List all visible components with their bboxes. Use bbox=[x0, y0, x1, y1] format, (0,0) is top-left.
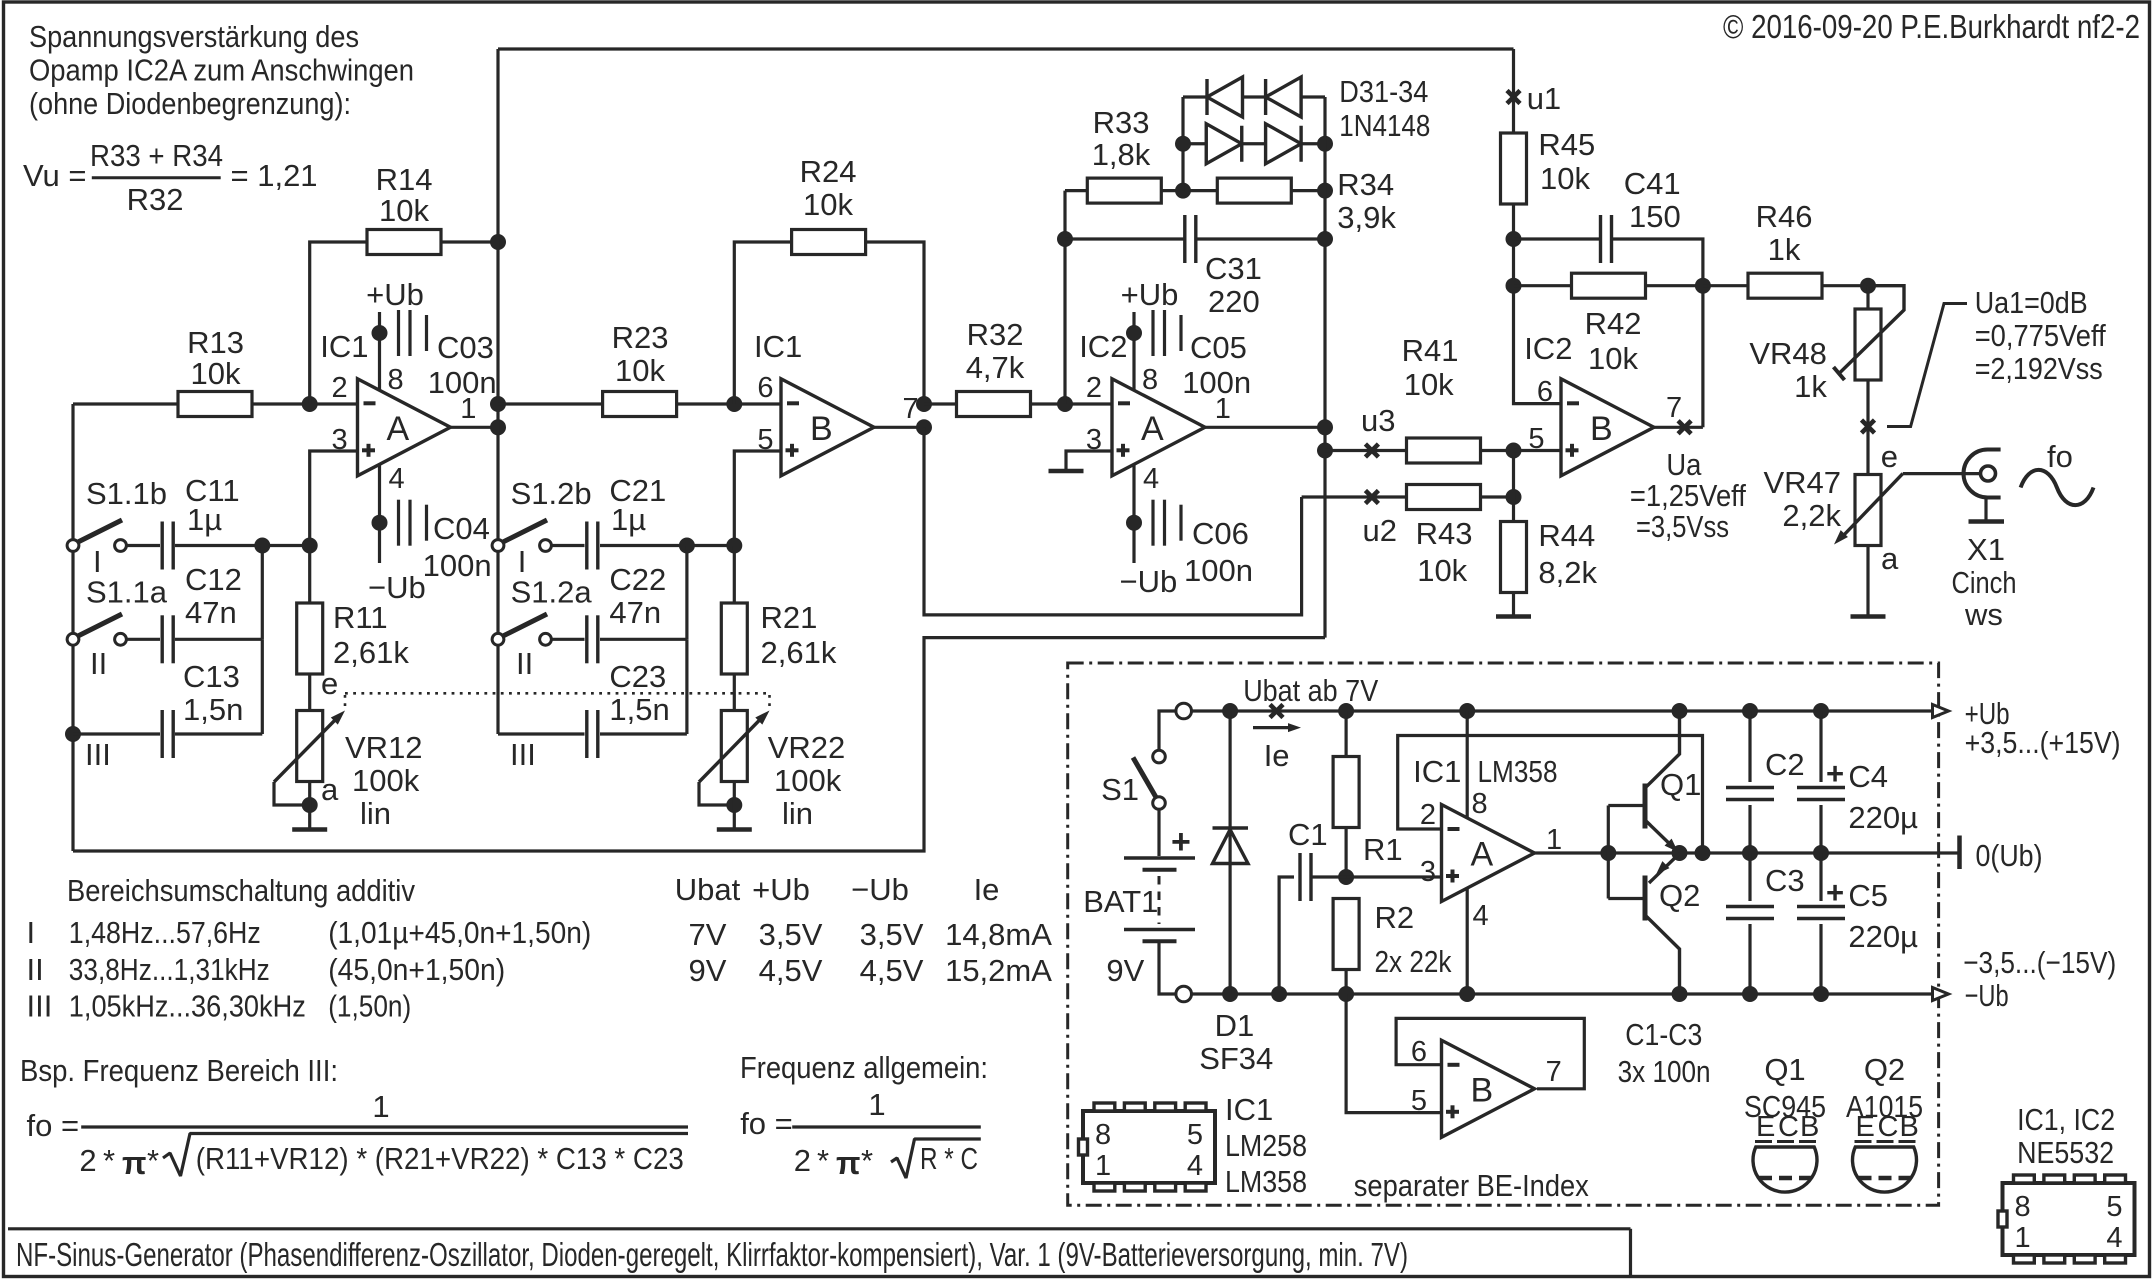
wire Q1 base stub bbox=[1608, 804, 1645, 807]
svg-text:S1.1b: S1.1b bbox=[86, 476, 167, 511]
svg-text:a: a bbox=[1881, 541, 1899, 576]
node diode row2 right bbox=[1317, 136, 1333, 152]
trimmer VR48 bbox=[1855, 309, 1881, 380]
svg-text:IC2: IC2 bbox=[1079, 329, 1127, 364]
IC package NE5532 DIP-8 bbox=[2003, 1183, 2135, 1255]
wire C13 to C12 row bbox=[261, 639, 264, 734]
svg-text:S1.1a: S1.1a bbox=[86, 575, 168, 610]
wire u3 row bbox=[1325, 449, 1407, 452]
svg-text:D31-34: D31-34 bbox=[1339, 74, 1428, 109]
potentiometer VR47 bbox=[1855, 475, 1881, 546]
svg-text:E: E bbox=[1856, 1111, 1875, 1143]
svg-text:Spannungsverstärkung des: Spannungsverstärkung des bbox=[29, 19, 359, 54]
svg-text:B: B bbox=[1471, 1071, 1494, 1109]
op-amp IC2 B bbox=[1561, 379, 1654, 476]
wire C13 left bbox=[73, 732, 160, 735]
ground VR47 bbox=[1851, 614, 1886, 619]
svg-text:= 1,21: = 1,21 bbox=[231, 158, 318, 193]
wire C23 to C22 row bbox=[685, 639, 688, 734]
svg-text:VR12: VR12 bbox=[345, 730, 423, 765]
wire VR47 wiper to X1 bbox=[1903, 472, 1979, 475]
wire battery to minus rail bbox=[1159, 943, 1177, 994]
transistor Q1 pinout ECB bbox=[1753, 1147, 1817, 1192]
wire stage3 feedback column bbox=[1063, 191, 1066, 404]
arrow Ie bbox=[1253, 726, 1292, 729]
svg-text:II: II bbox=[516, 646, 533, 681]
svg-text:33,8Hz...1,31kHz: 33,8Hz...1,31kHz bbox=[69, 952, 270, 987]
wire IC1A output bbox=[451, 426, 499, 429]
svg-text:C31: C31 bbox=[1205, 251, 1262, 286]
svg-text:B: B bbox=[810, 410, 833, 448]
svg-text:1: 1 bbox=[1546, 824, 1562, 856]
svg-text:10k: 10k bbox=[1417, 553, 1467, 588]
switch S1.2b bbox=[501, 520, 547, 543]
capacitor C11 bbox=[160, 522, 163, 570]
wire C12 to C11 row bbox=[261, 546, 264, 640]
svg-text:C1: C1 bbox=[1288, 817, 1328, 852]
svg-text:II: II bbox=[27, 952, 44, 987]
node R43 R44 bbox=[1506, 489, 1522, 505]
svg-text:−3,5...(−15V): −3,5...(−15V) bbox=[1963, 945, 2116, 980]
svg-text:1µ: 1µ bbox=[611, 502, 646, 537]
node base column output bbox=[1600, 845, 1616, 861]
svg-text:2: 2 bbox=[332, 372, 348, 404]
wire IC2A pin4 supply bbox=[1132, 464, 1135, 563]
wire C23 left bbox=[498, 732, 585, 735]
wire R11 top leg bbox=[308, 546, 311, 604]
op-amp power IC1 A bbox=[1442, 805, 1535, 902]
svg-text:+: + bbox=[1826, 875, 1844, 910]
svg-text:fo =: fo = bbox=[740, 1106, 793, 1141]
node R42 row left bbox=[1506, 278, 1522, 294]
wire R44 column bbox=[1512, 451, 1515, 522]
svg-text:10k: 10k bbox=[191, 356, 241, 391]
svg-text:SF34: SF34 bbox=[1199, 1041, 1273, 1076]
potentiometer VR22 bbox=[721, 711, 747, 782]
sine symbol fo bbox=[2021, 470, 2094, 505]
svg-text:III: III bbox=[27, 989, 53, 1024]
svg-text:5: 5 bbox=[2106, 1191, 2122, 1223]
svg-text:14,8mA: 14,8mA bbox=[945, 917, 1052, 952]
wire IC2B pin5 bbox=[1514, 449, 1562, 452]
svg-text:R42: R42 bbox=[1585, 306, 1642, 341]
svg-text:R2: R2 bbox=[1375, 900, 1415, 935]
node stage2 rail R23 bbox=[490, 396, 506, 412]
wire stage1 input rail bbox=[71, 404, 74, 851]
wire IC2A output column bbox=[1323, 97, 1326, 638]
svg-text:+Ub: +Ub bbox=[752, 872, 810, 907]
capacitor C21 bbox=[585, 522, 588, 570]
node feedback output bbox=[1695, 845, 1711, 861]
wire R24 right leg bbox=[866, 242, 924, 404]
switch S1.1a bbox=[76, 614, 122, 637]
svg-text:A: A bbox=[1141, 410, 1164, 448]
svg-text:π: π bbox=[122, 1145, 147, 1181]
wire main loop top bbox=[498, 47, 1514, 50]
wire u2 row bbox=[1302, 495, 1407, 498]
wire R2 bottom bbox=[1344, 970, 1347, 995]
wire R32 to IC2A pin2 bbox=[1031, 402, 1113, 405]
node power A pin8 rail bbox=[1459, 703, 1475, 719]
resistor R14 bbox=[367, 230, 441, 255]
resistor R24 bbox=[792, 230, 866, 255]
svg-text:X1: X1 bbox=[1967, 532, 2005, 567]
svg-text:15,2mA: 15,2mA bbox=[945, 953, 1052, 988]
resistor R32 bbox=[957, 392, 1031, 417]
capacitor C41 bbox=[1599, 215, 1602, 263]
wire oscillator feedback bottom bbox=[73, 638, 1325, 851]
wire C13 right bbox=[175, 732, 262, 735]
svg-text:6: 6 bbox=[757, 372, 773, 404]
wire R1 top bbox=[1344, 711, 1347, 757]
node R23 R24 pin6 bbox=[726, 396, 742, 412]
wire VR48 to VR47 bbox=[1866, 380, 1869, 475]
svg-text:1k: 1k bbox=[1794, 369, 1827, 404]
wire Q2 base stub bbox=[1608, 897, 1645, 900]
wire diode left column bbox=[1181, 97, 1184, 191]
svg-text:100n: 100n bbox=[1182, 365, 1251, 400]
node C31 feedback bbox=[1057, 231, 1073, 247]
wire R34 right leg bbox=[1291, 189, 1325, 192]
node R46 VR48 bbox=[1860, 278, 1876, 294]
node diode right column R34 bbox=[1317, 183, 1333, 199]
x mark Ua bbox=[1678, 421, 1691, 434]
svg-text:separater BE-Index: separater BE-Index bbox=[1354, 1168, 1589, 1203]
svg-text:C12: C12 bbox=[185, 562, 242, 597]
capacitor C23 bbox=[585, 710, 588, 758]
svg-text:=1,25Veff: =1,25Veff bbox=[1630, 478, 1746, 513]
resistor R13 bbox=[178, 392, 252, 417]
resistor R34 bbox=[1217, 178, 1291, 203]
resistor R11 bbox=[297, 603, 323, 674]
wire 0Ub output row bbox=[1535, 851, 1960, 854]
capacitor C4 elko bbox=[1797, 786, 1845, 790]
svg-text:C: C bbox=[1778, 1111, 1799, 1143]
svg-text:E: E bbox=[1756, 1111, 1775, 1143]
svg-text:ws: ws bbox=[1964, 597, 2003, 632]
svg-text:fo =: fo = bbox=[27, 1108, 80, 1143]
diode D34 bbox=[1266, 124, 1302, 164]
node C13 rail bbox=[65, 726, 81, 742]
wire VR48 top bbox=[1866, 286, 1869, 309]
wire IC1A pin8 supply bbox=[378, 312, 381, 391]
svg-text:4: 4 bbox=[389, 463, 405, 495]
capacitor C1 bbox=[1298, 853, 1301, 901]
node VR12 bottom bbox=[302, 797, 318, 813]
svg-text:C05: C05 bbox=[1190, 330, 1247, 365]
terminal 0Ub bbox=[1957, 836, 1962, 870]
resistor R41 bbox=[1407, 438, 1481, 463]
node IC2A output u3 bbox=[1317, 443, 1333, 459]
svg-text:Bsp. Frequenz Bereich III:: Bsp. Frequenz Bereich III: bbox=[20, 1053, 338, 1088]
svg-text:C: C bbox=[1878, 1111, 1899, 1143]
svg-text:R23: R23 bbox=[612, 320, 669, 355]
svg-text:*: * bbox=[817, 1143, 829, 1178]
wire VR12 to ground bbox=[308, 782, 311, 830]
svg-text:R33: R33 bbox=[1093, 105, 1150, 140]
svg-text:C03: C03 bbox=[437, 330, 494, 365]
wire C1 left bbox=[1279, 877, 1294, 994]
svg-text:C5: C5 bbox=[1848, 878, 1888, 913]
wire R21 to VR22 bbox=[733, 674, 736, 711]
wire S1 to battery bbox=[1157, 810, 1160, 857]
wire R43 right bbox=[1481, 495, 1514, 498]
svg-text:Q2: Q2 bbox=[1864, 1052, 1905, 1087]
svg-text:C4: C4 bbox=[1848, 759, 1888, 794]
Bsp fraction bar bbox=[81, 1125, 688, 1128]
op-amp IC2 A bbox=[1112, 379, 1205, 476]
svg-text:C04: C04 bbox=[433, 511, 490, 546]
x mark u3 bbox=[1365, 444, 1378, 457]
wire R42 left bbox=[1514, 284, 1572, 287]
svg-text:220µ: 220µ bbox=[1848, 919, 1918, 954]
svg-text:(45,0n+1,50n): (45,0n+1,50n) bbox=[328, 952, 505, 987]
svg-text:R44: R44 bbox=[1538, 518, 1595, 553]
svg-text:1,5n: 1,5n bbox=[609, 692, 669, 727]
node IC2A output bbox=[1317, 419, 1333, 435]
svg-text:R32: R32 bbox=[127, 182, 184, 217]
svg-text:2,2k: 2,2k bbox=[1782, 498, 1841, 533]
svg-text:8: 8 bbox=[2015, 1191, 2031, 1223]
diode D32 bbox=[1205, 79, 1208, 115]
svg-text:Q2: Q2 bbox=[1659, 878, 1700, 913]
svg-text:2: 2 bbox=[1420, 799, 1436, 831]
svg-text:B: B bbox=[1800, 1111, 1819, 1143]
svg-text:lin: lin bbox=[782, 796, 813, 831]
wire power A feedback bbox=[1398, 736, 1703, 854]
Bsp radical sign bbox=[163, 1134, 688, 1177]
svg-text:C22: C22 bbox=[609, 562, 666, 597]
svg-text:3,9k: 3,9k bbox=[1337, 200, 1396, 235]
diode D33 bbox=[1206, 124, 1242, 164]
wire C2 bottom bbox=[1748, 805, 1751, 853]
svg-text:R46: R46 bbox=[1756, 199, 1813, 234]
Vu formula fraction bar bbox=[92, 176, 221, 179]
wire C12 right bbox=[175, 638, 262, 641]
wire S1 top bbox=[1159, 711, 1177, 751]
wire IC1A pin4 supply bbox=[378, 464, 381, 563]
svg-text:Ubat: Ubat bbox=[675, 872, 741, 907]
wire diode row2 segments bbox=[1183, 142, 1206, 145]
resistor R45 bbox=[1501, 133, 1527, 204]
svg-text:1: 1 bbox=[372, 1089, 389, 1124]
wire R33 to R34 bbox=[1161, 189, 1217, 192]
svg-text:10k: 10k bbox=[1588, 341, 1638, 376]
resistor R2 bbox=[1333, 899, 1359, 970]
wire R33 left leg bbox=[1065, 189, 1087, 192]
svg-text:*: * bbox=[103, 1143, 115, 1178]
svg-text:R24: R24 bbox=[800, 154, 857, 189]
wire transistor base column bbox=[1607, 806, 1610, 899]
node R42 R46 output bbox=[1695, 278, 1711, 294]
svg-text:100n: 100n bbox=[423, 548, 492, 583]
wire C22 to C21 row bbox=[685, 546, 688, 640]
svg-text:S1.2a: S1.2a bbox=[511, 575, 593, 610]
node IC1A output bbox=[490, 419, 506, 435]
switch S1.2a bbox=[501, 614, 547, 637]
wire C3 top bbox=[1748, 853, 1751, 901]
svg-text:(ohne Diodenbegrenzung):: (ohne Diodenbegrenzung): bbox=[29, 86, 351, 121]
svg-text:A: A bbox=[1471, 836, 1494, 874]
resistor R42 bbox=[1572, 273, 1646, 298]
svg-text:C06: C06 bbox=[1192, 516, 1249, 551]
svg-text:IC1: IC1 bbox=[320, 329, 368, 364]
svg-text:I: I bbox=[27, 915, 36, 950]
svg-text:C3: C3 bbox=[1765, 863, 1805, 898]
allgemein fraction bar bbox=[792, 1125, 981, 1128]
node C2 C3 mid bbox=[1742, 845, 1758, 861]
svg-text:−Ub: −Ub bbox=[368, 570, 426, 605]
svg-text:*: * bbox=[861, 1143, 873, 1178]
svg-text:IC2: IC2 bbox=[1524, 331, 1572, 366]
op-amp IC1 A bbox=[358, 379, 451, 476]
wire C11 right bbox=[175, 544, 310, 547]
node C11 pin3 bbox=[302, 538, 318, 554]
capacitor C05 bypass bbox=[1126, 325, 1142, 341]
arrow +Ub out bbox=[1933, 705, 1949, 718]
node C5 bottom bbox=[1813, 986, 1829, 1002]
capacitor C12 bbox=[160, 615, 163, 663]
resistor R44 bbox=[1501, 522, 1527, 593]
svg-text:R33 + R34: R33 + R34 bbox=[90, 138, 223, 173]
svg-text:VR22: VR22 bbox=[768, 730, 846, 765]
svg-text:Ubat ab 7V: Ubat ab 7V bbox=[1243, 673, 1378, 708]
wire R46 right bbox=[1822, 284, 1868, 287]
svg-text:VR47: VR47 bbox=[1763, 465, 1841, 500]
svg-text:Bereichsumschaltung additiv: Bereichsumschaltung additiv bbox=[67, 873, 415, 908]
ground VR22 bbox=[717, 827, 752, 832]
wire Ubat rail bbox=[1190, 709, 1933, 712]
svg-text:Q1: Q1 bbox=[1764, 1052, 1805, 1087]
connector X1 chassis bbox=[1984, 497, 1987, 520]
wire C23 right bbox=[600, 732, 687, 735]
node C2 top bbox=[1742, 703, 1758, 719]
svg-text:2,61k: 2,61k bbox=[761, 635, 837, 670]
wire R23 to IC1B pin6 bbox=[677, 402, 781, 405]
svg-text:e: e bbox=[321, 666, 338, 701]
svg-text:4: 4 bbox=[2106, 1222, 2122, 1254]
node R24 IC1B output bbox=[916, 396, 932, 412]
battery terminal top bbox=[1176, 703, 1192, 719]
node R32 feedback bbox=[1057, 396, 1073, 412]
wire VR47 to ground bbox=[1866, 546, 1869, 616]
svg-text:=2,192Vss: =2,192Vss bbox=[1975, 351, 2103, 386]
ground R44 bbox=[1496, 614, 1531, 619]
svg-text:u1: u1 bbox=[1527, 81, 1561, 116]
wire R44 to ground bbox=[1512, 593, 1515, 617]
wire stage2 rail bbox=[496, 49, 499, 734]
arrow -Ub out bbox=[1933, 988, 1949, 1001]
transistor Q1 bbox=[1643, 784, 1648, 829]
svg-text:4,7k: 4,7k bbox=[966, 350, 1025, 385]
node R13 R14 pin2 bbox=[302, 396, 318, 412]
node IC1B output bbox=[916, 419, 932, 435]
svg-text:R13: R13 bbox=[187, 325, 244, 360]
wire C12 left bbox=[127, 638, 160, 641]
node C4 top bbox=[1813, 703, 1829, 719]
wire R42 right bbox=[1646, 284, 1703, 287]
title bar box bbox=[8, 1227, 1631, 1230]
wire C21 left bbox=[552, 544, 585, 547]
wire R41 right bbox=[1481, 449, 1514, 452]
node C3 bottom bbox=[1742, 986, 1758, 1002]
resistor R43 bbox=[1407, 485, 1481, 510]
svg-text:R43: R43 bbox=[1416, 516, 1473, 551]
svg-text:7V: 7V bbox=[689, 917, 727, 952]
svg-text:III: III bbox=[85, 737, 111, 772]
svg-text:10k: 10k bbox=[1404, 367, 1454, 402]
node R2 bottom rail bbox=[1338, 986, 1354, 1002]
svg-text:0(Ub): 0(Ub) bbox=[1976, 838, 2043, 873]
svg-text:6: 6 bbox=[1537, 376, 1553, 408]
svg-text:=3,5Vss: =3,5Vss bbox=[1636, 509, 1729, 544]
svg-text:3: 3 bbox=[1420, 856, 1436, 888]
wire IC2A pin8 supply bbox=[1132, 312, 1135, 391]
wire R24 left leg bbox=[734, 242, 791, 404]
svg-text:Opamp IC2A zum Anschwingen: Opamp IC2A zum Anschwingen bbox=[29, 53, 414, 88]
svg-text:−Ub: −Ub bbox=[851, 872, 909, 907]
svg-text:C23: C23 bbox=[609, 659, 666, 694]
wire C5 bottom bbox=[1819, 924, 1822, 994]
svg-text:LM258: LM258 bbox=[1225, 1128, 1307, 1163]
svg-text:IC1, IC2: IC1, IC2 bbox=[2017, 1102, 2115, 1137]
capacitor C2 bbox=[1726, 786, 1774, 790]
diode D1 bbox=[1228, 711, 1231, 994]
wire R32 row bbox=[924, 402, 957, 405]
svg-text:Ie: Ie bbox=[1264, 738, 1290, 773]
svg-text:R45: R45 bbox=[1538, 127, 1595, 162]
wire diode row1 segments bbox=[1183, 95, 1207, 98]
capacitor C04 bypass bbox=[372, 515, 388, 531]
svg-text:R32: R32 bbox=[967, 317, 1024, 352]
node diode left column R33 bbox=[1175, 183, 1191, 199]
svg-text:IC1: IC1 bbox=[1225, 1092, 1273, 1127]
wire C2 top bbox=[1748, 711, 1751, 782]
node R1 R2 C1 bbox=[1338, 869, 1354, 885]
wire IC1B out to u2 feed bbox=[924, 427, 1302, 615]
svg-text:8,2k: 8,2k bbox=[1538, 555, 1597, 590]
wire R21 top leg bbox=[733, 546, 736, 604]
connector X1 cinch bbox=[1964, 450, 2001, 498]
capacitor C06 bypass bbox=[1126, 515, 1142, 531]
svg-text:1k: 1k bbox=[1768, 232, 1801, 267]
svg-text:R1: R1 bbox=[1363, 832, 1403, 867]
wire C3 bottom bbox=[1748, 924, 1751, 994]
potentiometer VR12 bbox=[297, 711, 323, 782]
svg-text:II: II bbox=[90, 646, 107, 681]
svg-text:S1.2b: S1.2b bbox=[511, 476, 592, 511]
svg-text:Frequenz allgemein:: Frequenz allgemein: bbox=[740, 1050, 988, 1085]
svg-text:B: B bbox=[1900, 1111, 1919, 1143]
svg-text:Ua1=0dB: Ua1=0dB bbox=[1975, 285, 2088, 320]
svg-text:Cinch: Cinch bbox=[1952, 565, 2017, 600]
svg-text:e: e bbox=[1881, 439, 1898, 474]
allgemein radical sign bbox=[891, 1139, 981, 1178]
resistor R1 bbox=[1333, 757, 1359, 828]
svg-text:4: 4 bbox=[1187, 1150, 1203, 1182]
svg-text:100n: 100n bbox=[428, 365, 497, 400]
svg-text:10k: 10k bbox=[803, 187, 853, 222]
svg-text:2: 2 bbox=[79, 1143, 96, 1178]
svg-text:1,5n: 1,5n bbox=[183, 692, 243, 727]
x mark u1 bbox=[1507, 91, 1520, 104]
wire C1 right bbox=[1311, 875, 1346, 878]
resistor R33 bbox=[1087, 178, 1161, 203]
wire u1 column to R45 bbox=[1512, 49, 1515, 133]
battery BAT1 bbox=[1124, 856, 1195, 860]
node D1 bottom bbox=[1222, 986, 1238, 1002]
svg-text:C13: C13 bbox=[183, 659, 240, 694]
